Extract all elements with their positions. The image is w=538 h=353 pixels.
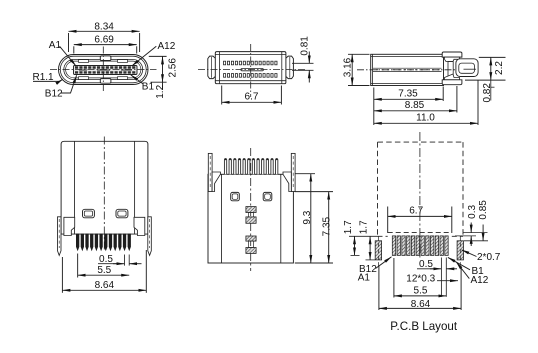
top view inner wall left	[218, 52, 220, 84]
footprint dashed rear line	[388, 232, 452, 234]
right bracket pin	[148, 217, 152, 256]
solder tab 4	[246, 248, 256, 254]
view4 centerline	[103, 137, 105, 251]
view1 vertical centerline	[102, 47, 104, 93]
dim 1.7 first bottom ext	[351, 254, 360, 256]
view5 left shoulder	[212, 172, 220, 192]
B12/A1 leader	[376, 257, 392, 269]
dim 0.82 tick	[491, 86, 495, 88]
footprint dashed outline top	[378, 141, 464, 143]
svg-text:7.35: 7.35	[321, 216, 332, 236]
A12 leader	[456, 262, 469, 279]
solder tab 2	[246, 217, 256, 223]
svg-text:2.2: 2.2	[494, 61, 505, 75]
footprint dashed outline left	[377, 142, 379, 236]
rear plate	[448, 62, 453, 78]
view6 centerline	[419, 132, 421, 258]
top view body	[215, 52, 286, 84]
front view cavity inner wall	[66, 61, 141, 78]
svg-text:1.7: 1.7	[343, 220, 354, 234]
dim 0.85 arrow	[482, 225, 484, 241]
dim 6.7 (view6) extension lines	[387, 207, 389, 234]
dim 8.64 (view6) line	[379, 307, 461, 309]
svg-text:8.64: 8.64	[95, 280, 115, 291]
dim 8.85 line	[374, 110, 457, 112]
view5 pin tips	[225, 159, 278, 161]
dim 3.16 line	[351, 54, 353, 85]
svg-text:8.85: 8.85	[405, 100, 425, 111]
view1 horizontal centerline	[50, 69, 157, 71]
svg-text:6.69: 6.69	[94, 35, 114, 46]
contact strip lower line	[373, 70, 442, 72]
dim 5.5 (view4) extension lines	[77, 254, 79, 278]
dim 5.5 (view6) line	[394, 295, 446, 297]
dim 5.5 (view6) ext	[393, 258, 395, 298]
view5 inner wall right	[280, 174, 282, 263]
rear top flange	[442, 52, 462, 57]
contact strip upper line	[373, 67, 442, 69]
view5 body	[208, 174, 293, 263]
dim 7.35 (view5) extension lines	[295, 191, 333, 193]
footprint dashed bottom-left segment	[378, 235, 388, 237]
side view top inner line	[371, 55, 444, 57]
top view inner wall right	[281, 52, 283, 84]
svg-text:B12: B12	[45, 89, 63, 100]
tongue top contact row	[75, 66, 136, 68]
top wall bump left	[79, 60, 89, 63]
dim 8.64 line	[62, 289, 146, 291]
contact row top	[224, 61, 278, 65]
contact row bottom	[224, 74, 278, 78]
svg-text:0.82: 0.82	[482, 83, 493, 103]
bottom wall bump right	[118, 77, 128, 80]
svg-text:1.2: 1.2	[155, 84, 166, 98]
dim 2*0.7 leader	[462, 250, 477, 257]
center pads x12	[392, 236, 448, 256]
dim 8.34 line	[69, 30, 140, 32]
dim 8.85 extension line	[456, 86, 458, 113]
dim 0.3 ext lines	[463, 232, 488, 234]
svg-text:0.3: 0.3	[467, 205, 478, 219]
side pad left centerline	[377, 237, 379, 267]
rear bottom flange	[442, 80, 462, 85]
dim 2.2 extension lines	[479, 56, 506, 58]
dim 11.0 line	[374, 122, 478, 124]
through-hole leg slot	[459, 63, 475, 73]
dim 2.56 extension lines	[149, 55, 167, 57]
SMT pins comb	[76, 234, 131, 252]
left bracket arm	[64, 217, 75, 235]
dim 1.7 second line	[369, 236, 371, 260]
dim 0.81 arrows	[308, 52, 310, 64]
view5 latch bump left	[231, 192, 240, 200]
view5 inner wall left	[221, 174, 223, 263]
view2 horizontal centerline	[198, 69, 306, 71]
top view inner wall bottom	[215, 80, 286, 82]
dim 6.69 extension lines	[73, 46, 75, 53]
svg-text:P.C.B Layout: P.C.B Layout	[390, 320, 458, 333]
right wing	[286, 56, 294, 79]
dim 1.7 second bottom ext	[366, 259, 376, 261]
svg-text:11.0: 11.0	[416, 113, 435, 124]
svg-text:A1: A1	[358, 272, 371, 283]
top latch tab	[100, 56, 111, 61]
right bracket arm	[134, 217, 145, 235]
footprint dashed outline right	[462, 142, 464, 236]
tab connector 1	[248, 213, 253, 217]
dim 6.7 line	[222, 101, 282, 103]
side view left cap line	[372, 54, 374, 85]
dim 5.5 line	[78, 274, 130, 276]
side pad right	[457, 241, 463, 260]
view5 left side tab	[208, 153, 212, 191]
contact dots	[376, 69, 440, 71]
view5 latch bump right	[263, 192, 272, 200]
tongue bottom contact row	[75, 71, 136, 73]
top view inner wall top	[215, 54, 286, 56]
top wall bump right	[118, 60, 128, 63]
side pad left	[375, 241, 381, 260]
latch hole right	[116, 209, 128, 218]
view4 bottom edge	[61, 233, 148, 235]
through-hole leg outer	[456, 59, 478, 77]
latch hole left	[83, 209, 95, 218]
view4 inner wall left	[74, 141, 76, 234]
dim 2.56 line	[162, 56, 164, 82]
dim 6.7 extension lines	[221, 86, 223, 105]
dim 9.3 line	[310, 174, 312, 263]
dim 9.3 extension lines	[295, 173, 315, 175]
dim 6.69 line	[74, 44, 137, 46]
svg-text:8.34: 8.34	[94, 21, 114, 32]
dim 8.64 (view4) extension lines	[61, 257, 63, 293]
front view shell inner line	[60, 56, 146, 83]
view5 right side tab	[291, 153, 295, 191]
tongue	[74, 66, 138, 75]
view5 pins comb up	[224, 159, 277, 175]
dim 1.7 first line	[354, 236, 356, 255]
view4 body	[61, 141, 148, 234]
dim 1.7 top ext	[349, 235, 378, 237]
solder tab 1	[246, 207, 256, 213]
svg-text:0.81: 0.81	[299, 36, 310, 56]
svg-text:A12: A12	[471, 275, 489, 286]
left wing	[208, 56, 216, 79]
dim 0.5 ticks	[124, 255, 126, 266]
dim 1.2 line	[162, 82, 164, 90]
dim 0.5 right arrow	[129, 263, 141, 265]
view2 vertical centerline	[250, 44, 252, 97]
svg-text:7.35: 7.35	[398, 89, 418, 100]
B1 leader	[448, 257, 470, 269]
svg-text:5.5: 5.5	[414, 285, 428, 296]
side pad right centerline	[459, 237, 461, 267]
view4 inner wall right	[134, 141, 136, 234]
dim 0.5 (view6) underline + arrow	[417, 268, 436, 270]
rear bottom flange step	[445, 74, 460, 80]
tongue middle dashes	[79, 69, 132, 71]
bottom wall bump left	[79, 77, 89, 80]
dim 8.34 extension lines	[68, 33, 70, 52]
left bracket pin	[58, 217, 62, 256]
bottom latch tab	[100, 79, 111, 84]
svg-text:3.16: 3.16	[342, 57, 353, 77]
svg-text:5.5: 5.5	[97, 265, 111, 276]
dim 0.5 underline + arrow	[98, 263, 119, 265]
svg-text:9.3: 9.3	[302, 210, 313, 224]
dim 12*0.3 arrow	[437, 280, 458, 282]
dim 8.64 (view6) ext lines	[378, 266, 380, 310]
svg-text:A12: A12	[158, 41, 176, 52]
dim 6.7 (view6) line	[388, 215, 452, 217]
leg center dash	[464, 68, 477, 70]
footprint dashed bottom-right segment	[452, 235, 463, 237]
dim 7.35 line	[374, 98, 443, 100]
dim 0.5 (view6) ticks	[440, 258, 442, 297]
front view cavity outer wall	[64, 59, 143, 79]
svg-text:6.7: 6.7	[245, 92, 259, 103]
dim 0.3 arrows	[470, 223, 472, 233]
center lens	[241, 69, 264, 71]
svg-text:2.56: 2.56	[168, 58, 179, 78]
dim 11.0 extension line	[477, 81, 479, 126]
rear top flange step	[445, 57, 460, 61]
svg-text:1.7: 1.7	[359, 220, 370, 234]
dim 3.16 extension lines	[348, 53, 370, 55]
view5 right shoulder	[283, 172, 291, 192]
svg-text:B1: B1	[142, 82, 155, 93]
svg-text:0.85: 0.85	[478, 200, 489, 220]
svg-text:2*0.7: 2*0.7	[477, 252, 501, 263]
svg-text:12*0.3: 12*0.3	[406, 274, 435, 285]
dim 2.2 line	[490, 57, 492, 80]
dim 0.5 (view6) right arrow	[446, 268, 457, 270]
dim 0.81 extension lines	[292, 62, 314, 64]
svg-text:6.7: 6.7	[409, 206, 423, 217]
front view outer shell	[59, 55, 149, 85]
solder tab 3	[246, 236, 256, 241]
svg-text:A1: A1	[49, 40, 62, 51]
side view body	[371, 54, 444, 85]
svg-text:8.64: 8.64	[411, 299, 431, 310]
view5 centerline	[250, 148, 252, 271]
side view bottom inner line	[371, 82, 444, 84]
side view centerline	[357, 69, 456, 71]
dim 7.35 extension lines	[373, 88, 375, 126]
tab connector 2	[248, 241, 253, 247]
dim 7.35 (view5) line	[328, 192, 330, 263]
dim 0.85 ext line	[464, 240, 488, 242]
